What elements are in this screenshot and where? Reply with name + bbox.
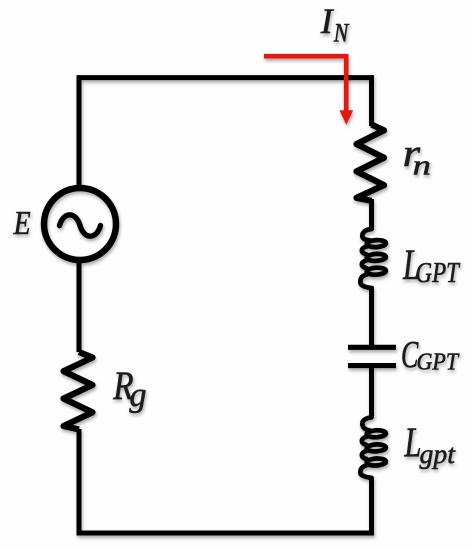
svg-text:N: N (333, 19, 350, 48)
svg-text:g: g (129, 376, 146, 414)
svg-text:n: n (413, 151, 431, 182)
svg-text:GPT: GPT (417, 349, 460, 375)
svg-text:I: I (320, 1, 335, 41)
svg-text:GPT: GPT (416, 258, 461, 289)
svg-text:gpt: gpt (420, 438, 457, 469)
svg-text:E: E (13, 204, 31, 242)
